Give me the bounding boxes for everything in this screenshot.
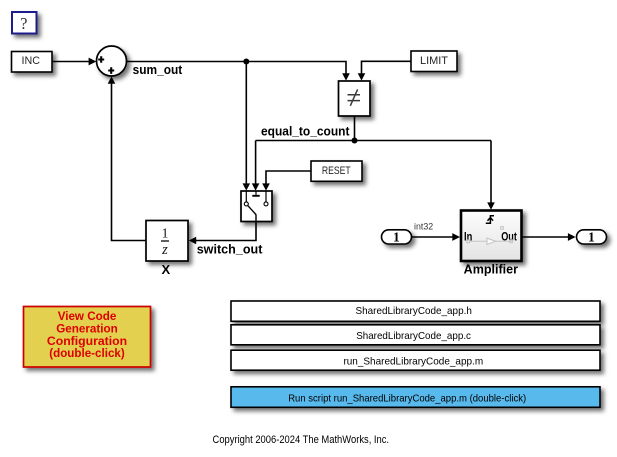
annotation copyright xyxy=(213,434,390,446)
relational operator block NotEqual xyxy=(339,81,371,116)
label X xyxy=(161,262,170,277)
label int32 xyxy=(414,222,433,232)
wire inport to Amplifier In xyxy=(412,233,461,241)
switch block SW1 xyxy=(241,191,272,222)
constant block LIMIT xyxy=(411,51,457,72)
wire NotEqual output down xyxy=(354,117,356,141)
label Amplifier xyxy=(464,262,518,277)
svg-text:equal_to_count: equal_to_count xyxy=(261,123,350,138)
svg-text:INC: INC xyxy=(22,55,41,67)
label equal_to_count xyxy=(261,123,350,138)
help block ? xyxy=(12,12,37,34)
wire UnitDelay to Sum bottom xyxy=(108,76,146,240)
junction node equal_to_count xyxy=(352,138,358,144)
svg-text:SharedLibraryCode_app.h: SharedLibraryCode_app.h xyxy=(356,305,472,317)
svg-text:Amplifier: Amplifier xyxy=(464,262,518,277)
svg-text:z: z xyxy=(161,242,168,258)
constant block INC xyxy=(12,52,53,73)
constant block RESET xyxy=(311,161,362,181)
svg-text:(double-click): (double-click) xyxy=(49,346,125,360)
svg-text:1: 1 xyxy=(162,226,169,241)
annotation View Code Generation Configuration xyxy=(24,307,151,368)
button SharedLibraryCode_app.c xyxy=(231,325,600,345)
wire equal_to_count to Amplifier trigger xyxy=(487,141,495,210)
svg-text:switch_out: switch_out xyxy=(197,242,263,257)
subsystem block Amplifier xyxy=(461,211,522,262)
svg-text:1: 1 xyxy=(393,229,400,244)
faint contents preview xyxy=(467,227,513,245)
svg-text:LIMIT: LIMIT xyxy=(420,55,448,67)
wire junction down to Switch input 1 xyxy=(243,62,251,191)
wire Sum to NotEqual (top run) xyxy=(127,62,350,81)
wire LIMIT to NotEqual xyxy=(358,61,411,80)
svg-text:?: ? xyxy=(20,14,27,33)
svg-text:X: X xyxy=(161,262,170,277)
svg-text:run_SharedLibraryCode_app.m: run_SharedLibraryCode_app.m xyxy=(343,356,483,368)
svg-text:RESET: RESET xyxy=(322,165,351,177)
label switch_out xyxy=(197,242,263,257)
wire INC to Sum xyxy=(53,58,97,66)
button SharedLibraryCode_app.h xyxy=(231,301,600,321)
svg-text:int32: int32 xyxy=(414,222,433,232)
button Run script (blue) xyxy=(231,387,600,408)
svg-text:SharedLibraryCode_app.c: SharedLibraryCode_app.c xyxy=(356,330,471,342)
svg-text:1: 1 xyxy=(588,229,595,244)
junction node at sum_out xyxy=(243,59,249,65)
inport block 1 (input) xyxy=(382,229,412,244)
wire equal_to_count down to Switch input 2 xyxy=(252,141,260,191)
svg-text:sum_out: sum_out xyxy=(133,62,183,77)
svg-text:Copyright 2006-2024 The MathWo: Copyright 2006-2024 The MathWorks, Inc. xyxy=(213,434,390,446)
wire Switch output to UnitDelay xyxy=(189,222,256,245)
sum block U_sum xyxy=(97,46,127,76)
svg-text:Run script run_SharedLibraryCo: Run script run_SharedLibraryCode_app.m (… xyxy=(288,393,526,405)
wire equal_to_count horizontal run xyxy=(256,140,491,142)
wire RESET to Switch input 3 xyxy=(262,171,311,191)
trigger icon xyxy=(486,216,494,224)
button run_SharedLibraryCode_app.m xyxy=(231,350,600,370)
unit delay block X (1/z) xyxy=(146,221,188,262)
label sum_out xyxy=(133,62,183,77)
outport block 1 (output) xyxy=(577,229,607,244)
wire Amplifier Out to outport xyxy=(522,233,576,241)
